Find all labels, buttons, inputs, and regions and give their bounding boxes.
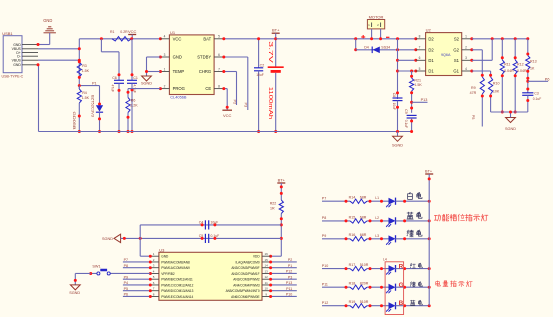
svg-text:S1: S1 bbox=[454, 58, 460, 63]
svg-text:SGND: SGND bbox=[392, 143, 403, 147]
svg-text:P10: P10 bbox=[322, 264, 328, 268]
svg-text:P12: P12 bbox=[286, 270, 292, 274]
svg-text:P5: P5 bbox=[124, 287, 128, 291]
svg-text:1: 1 bbox=[164, 67, 166, 71]
svg-text:P2: P2 bbox=[288, 258, 292, 262]
svg-text:R6: R6 bbox=[131, 99, 136, 103]
svg-text:D2: D2 bbox=[428, 47, 434, 52]
svg-text:G2: G2 bbox=[453, 47, 459, 52]
svg-text:AN4/COM4/PWM3: AN4/COM4/PWM3 bbox=[233, 283, 260, 287]
svg-text:P4: P4 bbox=[124, 281, 128, 285]
svg-text:8: 8 bbox=[218, 84, 220, 88]
svg-text:D2: D2 bbox=[428, 36, 434, 41]
svg-text:AN3/COM3/PWM0F: AN3/COM3/PWM0F bbox=[231, 266, 259, 270]
svg-text:L2: L2 bbox=[375, 216, 379, 220]
svg-text:P7: P7 bbox=[322, 196, 326, 200]
svg-text:VBUS: VBUS bbox=[12, 59, 22, 63]
svg-text:13: 13 bbox=[265, 269, 269, 273]
svg-text:R17: R17 bbox=[349, 263, 356, 267]
svg-text:SGND: SGND bbox=[102, 237, 113, 241]
svg-text:P7: P7 bbox=[124, 258, 128, 262]
svg-text:P10: P10 bbox=[286, 293, 292, 297]
svg-text:P13: P13 bbox=[421, 98, 428, 102]
svg-text:P6: P6 bbox=[545, 77, 550, 81]
svg-text:C3: C3 bbox=[534, 92, 539, 96]
svg-text:C8: C8 bbox=[392, 93, 396, 97]
svg-text:47R: 47R bbox=[470, 91, 477, 95]
svg-text:VCC: VCC bbox=[223, 113, 232, 118]
svg-text:BAT: BAT bbox=[203, 36, 211, 41]
svg-text:1.5K: 1.5K bbox=[82, 96, 90, 100]
svg-text:1: 1 bbox=[465, 35, 467, 39]
svg-text:7: 7 bbox=[419, 46, 421, 50]
svg-text:68R: 68R bbox=[360, 196, 367, 200]
svg-text:3: 3 bbox=[465, 56, 467, 60]
svg-text:9Q6A: 9Q6A bbox=[441, 53, 451, 57]
svg-text:CE: CE bbox=[205, 86, 211, 91]
svg-text:2: 2 bbox=[164, 84, 166, 88]
svg-text:68R: 68R bbox=[360, 233, 367, 237]
svg-text:CL4056B: CL4056B bbox=[170, 95, 187, 100]
svg-text:C4: C4 bbox=[199, 220, 204, 224]
svg-text:L4: L4 bbox=[383, 257, 387, 261]
svg-text:C1: C1 bbox=[133, 76, 138, 80]
svg-text:P6: P6 bbox=[124, 293, 128, 297]
svg-text:PWM0A/COM8/AN8: PWM0A/COM8/AN8 bbox=[161, 260, 190, 264]
svg-text:510R: 510R bbox=[360, 300, 369, 304]
svg-text:P1: P1 bbox=[288, 264, 292, 268]
svg-text:P9: P9 bbox=[124, 275, 128, 279]
svg-text:VDD: VDD bbox=[253, 255, 260, 259]
svg-text:P2: P2 bbox=[232, 100, 236, 105]
svg-text:10uF: 10uF bbox=[392, 103, 396, 110]
svg-text:SS34: SS34 bbox=[381, 45, 390, 49]
svg-text:GND: GND bbox=[173, 55, 182, 60]
svg-text:C9: C9 bbox=[404, 109, 408, 113]
svg-text:C2: C2 bbox=[260, 64, 265, 68]
svg-text:10uF: 10uF bbox=[211, 220, 219, 224]
svg-text:G1: G1 bbox=[453, 69, 459, 74]
svg-text:16: 16 bbox=[265, 252, 269, 256]
svg-text:B: B bbox=[399, 300, 404, 307]
svg-text:AN3/COM3/PWM2: AN3/COM3/PWM2 bbox=[233, 278, 260, 282]
svg-text:5: 5 bbox=[419, 67, 421, 71]
svg-text:VCC: VCC bbox=[128, 29, 137, 34]
svg-text:15: 15 bbox=[265, 258, 269, 262]
svg-text:P11: P11 bbox=[286, 287, 292, 291]
svg-text:1100mAh: 1100mAh bbox=[267, 87, 273, 120]
svg-text:8: 8 bbox=[419, 35, 421, 39]
svg-text:3: 3 bbox=[164, 53, 166, 57]
svg-text:6: 6 bbox=[218, 53, 220, 57]
svg-text:R12: R12 bbox=[517, 63, 524, 67]
svg-text:P8: P8 bbox=[322, 216, 326, 220]
svg-text:R1: R1 bbox=[110, 30, 115, 34]
svg-text:AN2/COM2/PWM1F: AN2/COM2/PWM1F bbox=[231, 272, 259, 276]
svg-text:D1: D1 bbox=[428, 58, 434, 63]
svg-text:STDBY: STDBY bbox=[197, 55, 211, 60]
svg-text:2.2K: 2.2K bbox=[130, 103, 138, 107]
svg-text:0.04R: 0.04R bbox=[517, 69, 527, 73]
svg-text:R14: R14 bbox=[349, 196, 356, 200]
svg-text:C6: C6 bbox=[112, 76, 117, 80]
svg-text:R18: R18 bbox=[349, 282, 356, 286]
svg-text:SGND: SGND bbox=[505, 127, 516, 131]
svg-text:P1: P1 bbox=[92, 82, 97, 86]
svg-text:U1: U1 bbox=[170, 30, 176, 35]
svg-text:820R: 820R bbox=[360, 282, 369, 286]
svg-text:GD05B: GD05B bbox=[72, 112, 76, 131]
svg-text:2: 2 bbox=[465, 46, 467, 50]
svg-text:6: 6 bbox=[419, 56, 421, 60]
svg-text:R3: R3 bbox=[82, 64, 87, 68]
svg-text:R11: R11 bbox=[504, 63, 510, 67]
svg-text:10: 10 bbox=[265, 287, 269, 291]
svg-text:1.5K: 1.5K bbox=[414, 83, 422, 87]
svg-text:0.1uF: 0.1uF bbox=[404, 120, 408, 128]
svg-text:510R: 510R bbox=[360, 263, 369, 267]
svg-text:12: 12 bbox=[265, 275, 269, 279]
svg-text:R19: R19 bbox=[349, 300, 356, 304]
svg-text:R13: R13 bbox=[530, 59, 537, 63]
svg-text:P5: P5 bbox=[471, 115, 475, 120]
svg-text:4: 4 bbox=[465, 67, 467, 71]
svg-text:GND: GND bbox=[161, 255, 169, 259]
svg-text:USB-TYPE-C: USB-TYPE-C bbox=[2, 74, 24, 78]
svg-text:D4: D4 bbox=[364, 45, 369, 49]
svg-text:47uF: 47uF bbox=[111, 85, 115, 93]
svg-text:PWM0B/COM11/AN11: PWM0B/COM11/AN11 bbox=[161, 278, 193, 282]
svg-text:P11: P11 bbox=[322, 282, 328, 286]
svg-text:4: 4 bbox=[164, 35, 166, 39]
svg-text:L3: L3 bbox=[375, 234, 379, 238]
svg-text:1R: 1R bbox=[270, 207, 275, 211]
svg-text:C5: C5 bbox=[199, 234, 204, 238]
svg-text:3.7V: 3.7V bbox=[267, 41, 273, 63]
svg-text:1K: 1K bbox=[530, 67, 535, 71]
svg-text:P13: P13 bbox=[286, 281, 292, 285]
svg-text:U2: U2 bbox=[426, 28, 432, 33]
svg-text:10uF: 10uF bbox=[256, 73, 264, 77]
svg-text:PROG: PROG bbox=[173, 86, 185, 91]
svg-text:CHRG: CHRG bbox=[199, 69, 211, 74]
svg-text:1.5K: 1.5K bbox=[82, 69, 90, 73]
svg-text:R9: R9 bbox=[471, 86, 476, 90]
svg-text:PWM1A/COM9/AN9: PWM1A/COM9/AN9 bbox=[161, 266, 190, 270]
svg-text:U3: U3 bbox=[159, 247, 165, 252]
svg-text:0.04R: 0.04R bbox=[504, 69, 514, 73]
svg-text:TEMP: TEMP bbox=[173, 69, 185, 74]
svg-text:R21: R21 bbox=[414, 78, 421, 82]
svg-text:P9: P9 bbox=[322, 234, 326, 238]
svg-text:MOTOR: MOTOR bbox=[369, 14, 384, 19]
svg-text:BT+: BT+ bbox=[425, 170, 433, 174]
svg-text:R16: R16 bbox=[349, 233, 356, 237]
svg-text:0.1uF: 0.1uF bbox=[211, 234, 220, 238]
svg-text:PWM0D/COM13/AN13: PWM0D/COM13/AN13 bbox=[161, 289, 193, 293]
svg-text:BZT52C3V3: BZT52C3V3 bbox=[91, 95, 95, 117]
svg-text:0.1uF: 0.1uF bbox=[533, 97, 541, 101]
svg-text:P3: P3 bbox=[244, 103, 248, 108]
svg-text:R15: R15 bbox=[349, 215, 356, 219]
svg-text:R4: R4 bbox=[82, 91, 87, 95]
svg-text:G: G bbox=[399, 282, 404, 289]
svg-text:P12: P12 bbox=[322, 301, 328, 305]
svg-text:PWM1C/COM12/AN12: PWM1C/COM12/AN12 bbox=[161, 283, 193, 287]
svg-text:R10: R10 bbox=[493, 81, 500, 85]
svg-text:11: 11 bbox=[265, 281, 268, 285]
svg-text:14: 14 bbox=[265, 264, 269, 268]
svg-text:R: R bbox=[399, 263, 404, 270]
svg-text:SW1: SW1 bbox=[92, 264, 100, 268]
svg-text:GND: GND bbox=[43, 18, 52, 23]
svg-text:BT+: BT+ bbox=[278, 177, 286, 182]
svg-text:USB1: USB1 bbox=[2, 31, 13, 36]
svg-text:D1: D1 bbox=[428, 69, 434, 74]
svg-text:VPP/RB2: VPP/RB2 bbox=[161, 272, 175, 276]
svg-text:AN5/COM5/PWM4/INT0: AN5/COM5/PWM4/INT0 bbox=[226, 289, 260, 293]
svg-text:S2: S2 bbox=[454, 36, 460, 41]
svg-text:BT+: BT+ bbox=[272, 28, 280, 33]
svg-text:R22: R22 bbox=[270, 202, 277, 206]
svg-text:VCC: VCC bbox=[173, 36, 182, 41]
svg-text:GND: GND bbox=[13, 63, 21, 67]
svg-text:10K: 10K bbox=[493, 90, 500, 94]
svg-text:P8: P8 bbox=[124, 264, 128, 268]
svg-text:P3: P3 bbox=[288, 275, 292, 279]
svg-text:ILAQ/AN8/COM0: ILAQ/AN8/COM0 bbox=[236, 260, 260, 264]
svg-text:SGND: SGND bbox=[69, 291, 80, 295]
svg-text:PWM1E/COM14/AN14: PWM1E/COM14/AN14 bbox=[161, 295, 193, 299]
svg-text:SGND: SGND bbox=[141, 82, 152, 86]
svg-text:L1: L1 bbox=[375, 196, 379, 200]
svg-text:AN6/COM6/PWM0E: AN6/COM6/PWM0E bbox=[231, 295, 259, 299]
svg-text:68R: 68R bbox=[360, 215, 367, 219]
svg-text:7: 7 bbox=[218, 67, 220, 71]
svg-text:5: 5 bbox=[218, 35, 220, 39]
